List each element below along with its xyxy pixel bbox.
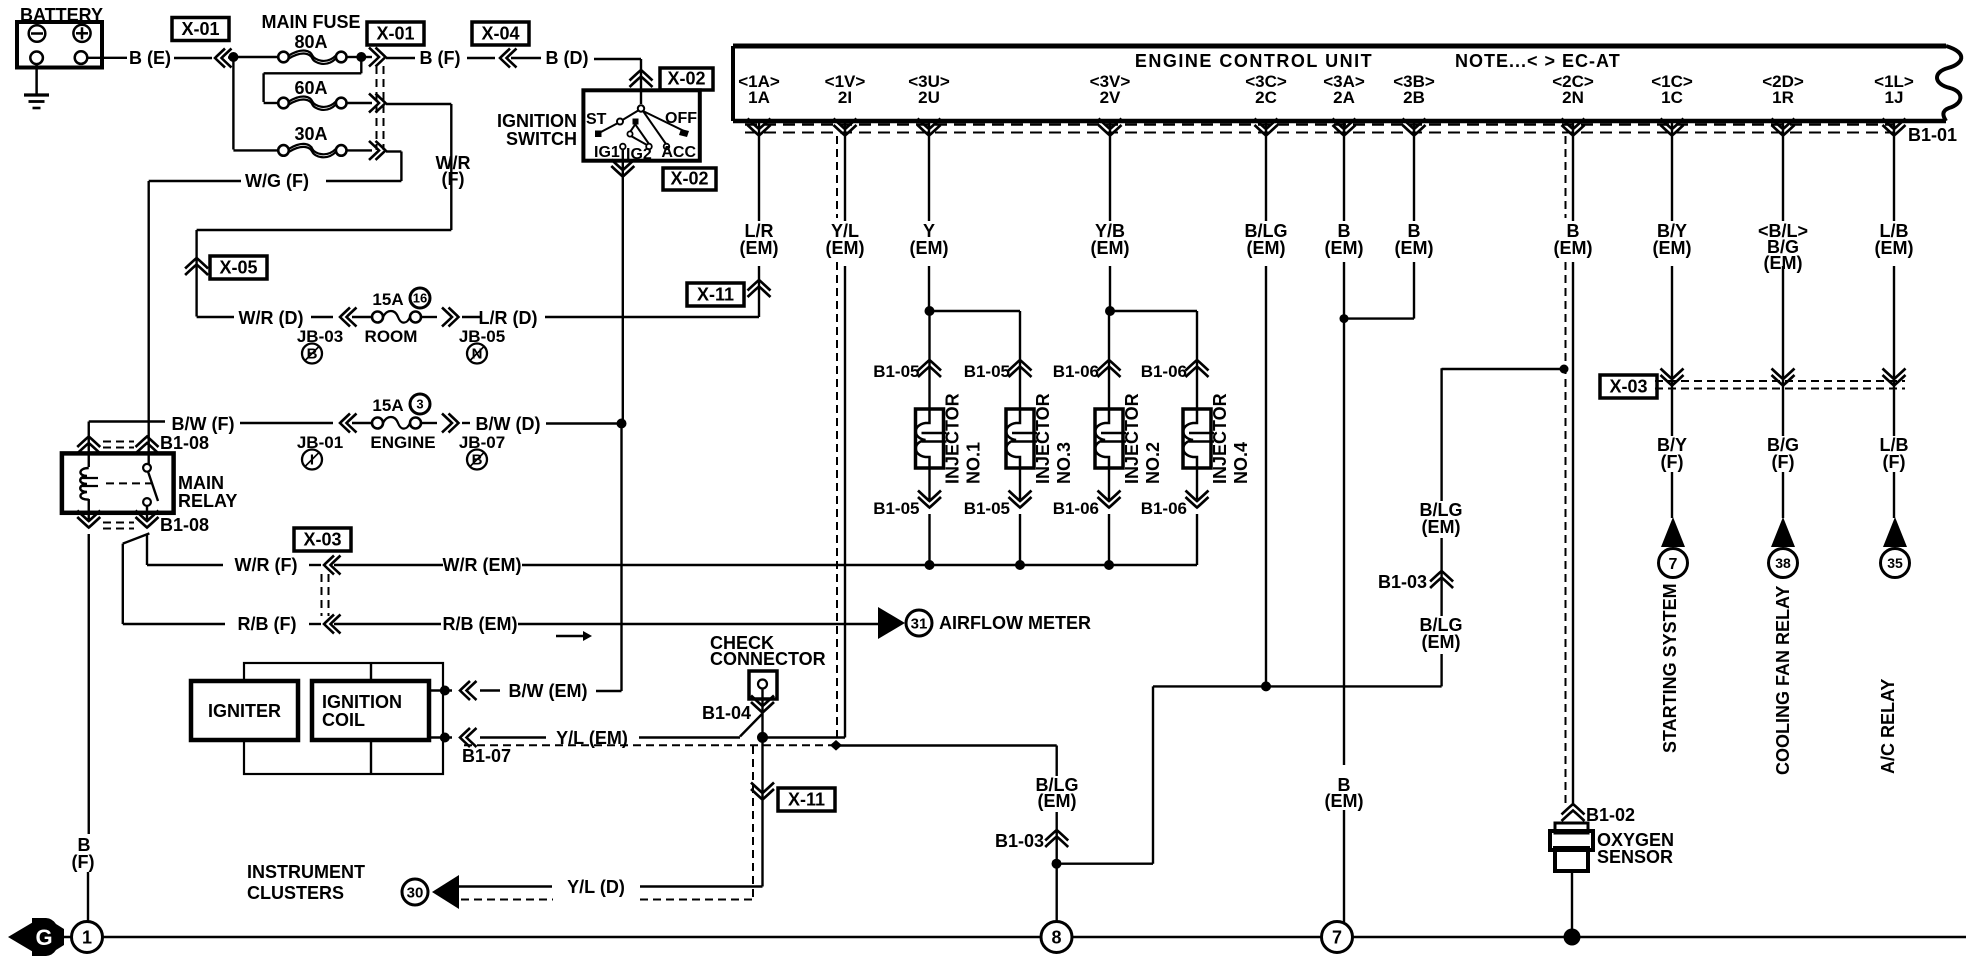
svg-text:(EM): (EM): [1422, 517, 1461, 537]
svg-text:38: 38: [1775, 555, 1791, 571]
svg-text:B1-06: B1-06: [1141, 499, 1187, 518]
svg-text:IGNITION: IGNITION: [497, 111, 577, 131]
svg-text:X-01: X-01: [181, 19, 219, 39]
svg-text:30A: 30A: [294, 124, 327, 144]
svg-text:INJECTOR: INJECTOR: [1210, 393, 1230, 484]
svg-text:CLUSTERS: CLUSTERS: [247, 883, 344, 903]
svg-text:7: 7: [1669, 556, 1678, 573]
svg-text:INJECTOR: INJECTOR: [1033, 393, 1053, 484]
svg-text:X-11: X-11: [788, 790, 825, 810]
svg-text:ACC: ACC: [661, 144, 696, 161]
svg-text:(EM): (EM): [1875, 238, 1914, 258]
svg-text:IGNITION: IGNITION: [322, 692, 402, 712]
svg-text:B1-08: B1-08: [160, 433, 209, 453]
svg-text:(EM): (EM): [1325, 791, 1364, 811]
svg-text:B1-06: B1-06: [1141, 362, 1187, 381]
svg-text:B1-03: B1-03: [1378, 572, 1427, 592]
svg-text:B1-02: B1-02: [1586, 805, 1635, 825]
svg-text:(EM): (EM): [1091, 238, 1130, 258]
svg-text:B1-05: B1-05: [964, 499, 1010, 518]
svg-text:1J: 1J: [1885, 88, 1904, 107]
svg-text:1C: 1C: [1661, 88, 1683, 107]
svg-text:15A: 15A: [372, 396, 403, 415]
svg-text:CONNECTOR: CONNECTOR: [710, 649, 826, 669]
svg-text:MAIN: MAIN: [178, 473, 224, 493]
svg-text:STARTING SYSTEM: STARTING SYSTEM: [1660, 583, 1680, 753]
svg-text:X-05: X-05: [219, 258, 257, 278]
svg-text:B1-05: B1-05: [873, 499, 919, 518]
svg-text:R/B (F): R/B (F): [238, 614, 297, 634]
svg-text:X-02: X-02: [670, 169, 708, 189]
svg-text:OFF: OFF: [665, 110, 697, 127]
svg-text:2I: 2I: [838, 88, 852, 107]
svg-text:INJECTOR: INJECTOR: [943, 393, 963, 484]
svg-text:B1-06: B1-06: [1053, 499, 1099, 518]
svg-text:B/W (EM): B/W (EM): [509, 681, 588, 701]
svg-text:B1-05: B1-05: [964, 362, 1010, 381]
svg-text:ST: ST: [586, 111, 607, 128]
svg-text:X-03: X-03: [1609, 377, 1647, 397]
svg-text:(F): (F): [1772, 452, 1795, 472]
svg-text:2B: 2B: [1403, 88, 1425, 107]
svg-text:B/W (F): B/W (F): [172, 414, 235, 434]
svg-text:IG2: IG2: [626, 146, 652, 163]
svg-text:(EM): (EM): [1422, 632, 1461, 652]
svg-text:JB-05: JB-05: [459, 327, 505, 346]
svg-text:NO.4: NO.4: [1231, 442, 1251, 484]
svg-text:A/C RELAY: A/C RELAY: [1878, 679, 1898, 774]
svg-text:(EM): (EM): [1247, 238, 1286, 258]
svg-text:IG1: IG1: [594, 144, 620, 161]
svg-text:8: 8: [1051, 927, 1061, 947]
svg-text:JB-07: JB-07: [459, 433, 505, 452]
svg-text:X-01: X-01: [376, 24, 414, 44]
svg-text:SWITCH: SWITCH: [506, 129, 577, 149]
svg-text:X-03: X-03: [303, 530, 341, 550]
svg-text:NO.2: NO.2: [1143, 442, 1163, 484]
svg-text:60A: 60A: [294, 78, 327, 98]
svg-text:(F): (F): [442, 169, 465, 189]
svg-text:(F): (F): [1661, 452, 1684, 472]
svg-text:B1-05: B1-05: [873, 362, 919, 381]
svg-text:B1-03: B1-03: [995, 831, 1044, 851]
svg-text:ENGINE: ENGINE: [370, 433, 435, 452]
svg-text:B1-07: B1-07: [462, 746, 511, 766]
svg-text:7: 7: [1332, 927, 1342, 947]
svg-text:X-02: X-02: [667, 69, 705, 89]
svg-text:W/R (EM): W/R (EM): [443, 555, 522, 575]
svg-text:B1-08: B1-08: [160, 515, 209, 535]
svg-text:1A: 1A: [748, 88, 770, 107]
svg-text:AIRFLOW METER: AIRFLOW METER: [939, 613, 1091, 633]
svg-text:B/W (D): B/W (D): [476, 414, 541, 434]
svg-text:B (D): B (D): [546, 48, 589, 68]
svg-text:ENGINE CONTROL UNIT: ENGINE CONTROL UNIT: [1135, 51, 1373, 71]
svg-text:(EM): (EM): [1038, 791, 1077, 811]
svg-text:NO.3: NO.3: [1054, 442, 1074, 484]
svg-text:31: 31: [911, 615, 928, 632]
svg-text:2C: 2C: [1255, 88, 1277, 107]
svg-text:JB-01: JB-01: [297, 433, 343, 452]
svg-text:COOLING FAN RELAY: COOLING FAN RELAY: [1773, 586, 1793, 775]
svg-text:2N: 2N: [1562, 88, 1584, 107]
svg-text:INJECTOR: INJECTOR: [1122, 393, 1142, 484]
svg-text:B (E): B (E): [129, 48, 171, 68]
svg-text:(EM): (EM): [910, 238, 949, 258]
svg-text:SENSOR: SENSOR: [1597, 847, 1673, 867]
svg-text:(EM): (EM): [740, 238, 779, 258]
svg-text:B1-04: B1-04: [702, 703, 751, 723]
svg-text:80A: 80A: [294, 32, 327, 52]
svg-text:2U: 2U: [918, 88, 940, 107]
svg-text:Y/L (EM): Y/L (EM): [556, 728, 628, 748]
svg-text:IGNITER: IGNITER: [208, 701, 281, 721]
svg-text:NO.1: NO.1: [964, 442, 984, 484]
svg-text:(EM): (EM): [1325, 238, 1364, 258]
svg-text:30: 30: [407, 884, 424, 901]
svg-text:(F): (F): [72, 852, 95, 872]
svg-text:JB-03: JB-03: [297, 327, 343, 346]
svg-text:B1-01: B1-01: [1908, 125, 1957, 145]
svg-text:(EM): (EM): [1554, 238, 1593, 258]
svg-text:INSTRUMENT: INSTRUMENT: [247, 862, 365, 882]
svg-text:2A: 2A: [1333, 88, 1355, 107]
svg-text:R/B (EM): R/B (EM): [443, 614, 518, 634]
svg-text:1R: 1R: [1772, 88, 1794, 107]
svg-text:35: 35: [1887, 555, 1903, 571]
svg-text:W/R (D): W/R (D): [239, 308, 304, 328]
svg-text:X-11: X-11: [697, 285, 734, 305]
svg-text:ROOM: ROOM: [365, 327, 418, 346]
svg-text:RELAY: RELAY: [178, 491, 237, 511]
svg-text:W/R (F): W/R (F): [235, 555, 298, 575]
svg-text:3: 3: [416, 397, 423, 412]
svg-text:(F): (F): [1883, 452, 1906, 472]
svg-text:L/R (D): L/R (D): [479, 308, 538, 328]
svg-text:16: 16: [413, 291, 427, 306]
svg-text:COIL: COIL: [322, 710, 365, 730]
svg-text:(EM): (EM): [1395, 238, 1434, 258]
svg-text:1: 1: [82, 927, 92, 947]
svg-text:Y/L (D): Y/L (D): [567, 877, 625, 897]
svg-text:NOTE...< > EC-AT: NOTE...< > EC-AT: [1455, 51, 1621, 71]
svg-text:B1-06: B1-06: [1053, 362, 1099, 381]
svg-text:X-04: X-04: [481, 24, 519, 44]
svg-text:G: G: [35, 925, 52, 950]
svg-text:W/G (F): W/G (F): [245, 171, 309, 191]
svg-text:(EM): (EM): [826, 238, 865, 258]
svg-text:B (F): B (F): [420, 48, 461, 68]
svg-text:MAIN FUSE: MAIN FUSE: [262, 12, 361, 32]
svg-text:(EM): (EM): [1653, 238, 1692, 258]
svg-text:15A: 15A: [372, 290, 403, 309]
svg-text:2V: 2V: [1100, 88, 1121, 107]
